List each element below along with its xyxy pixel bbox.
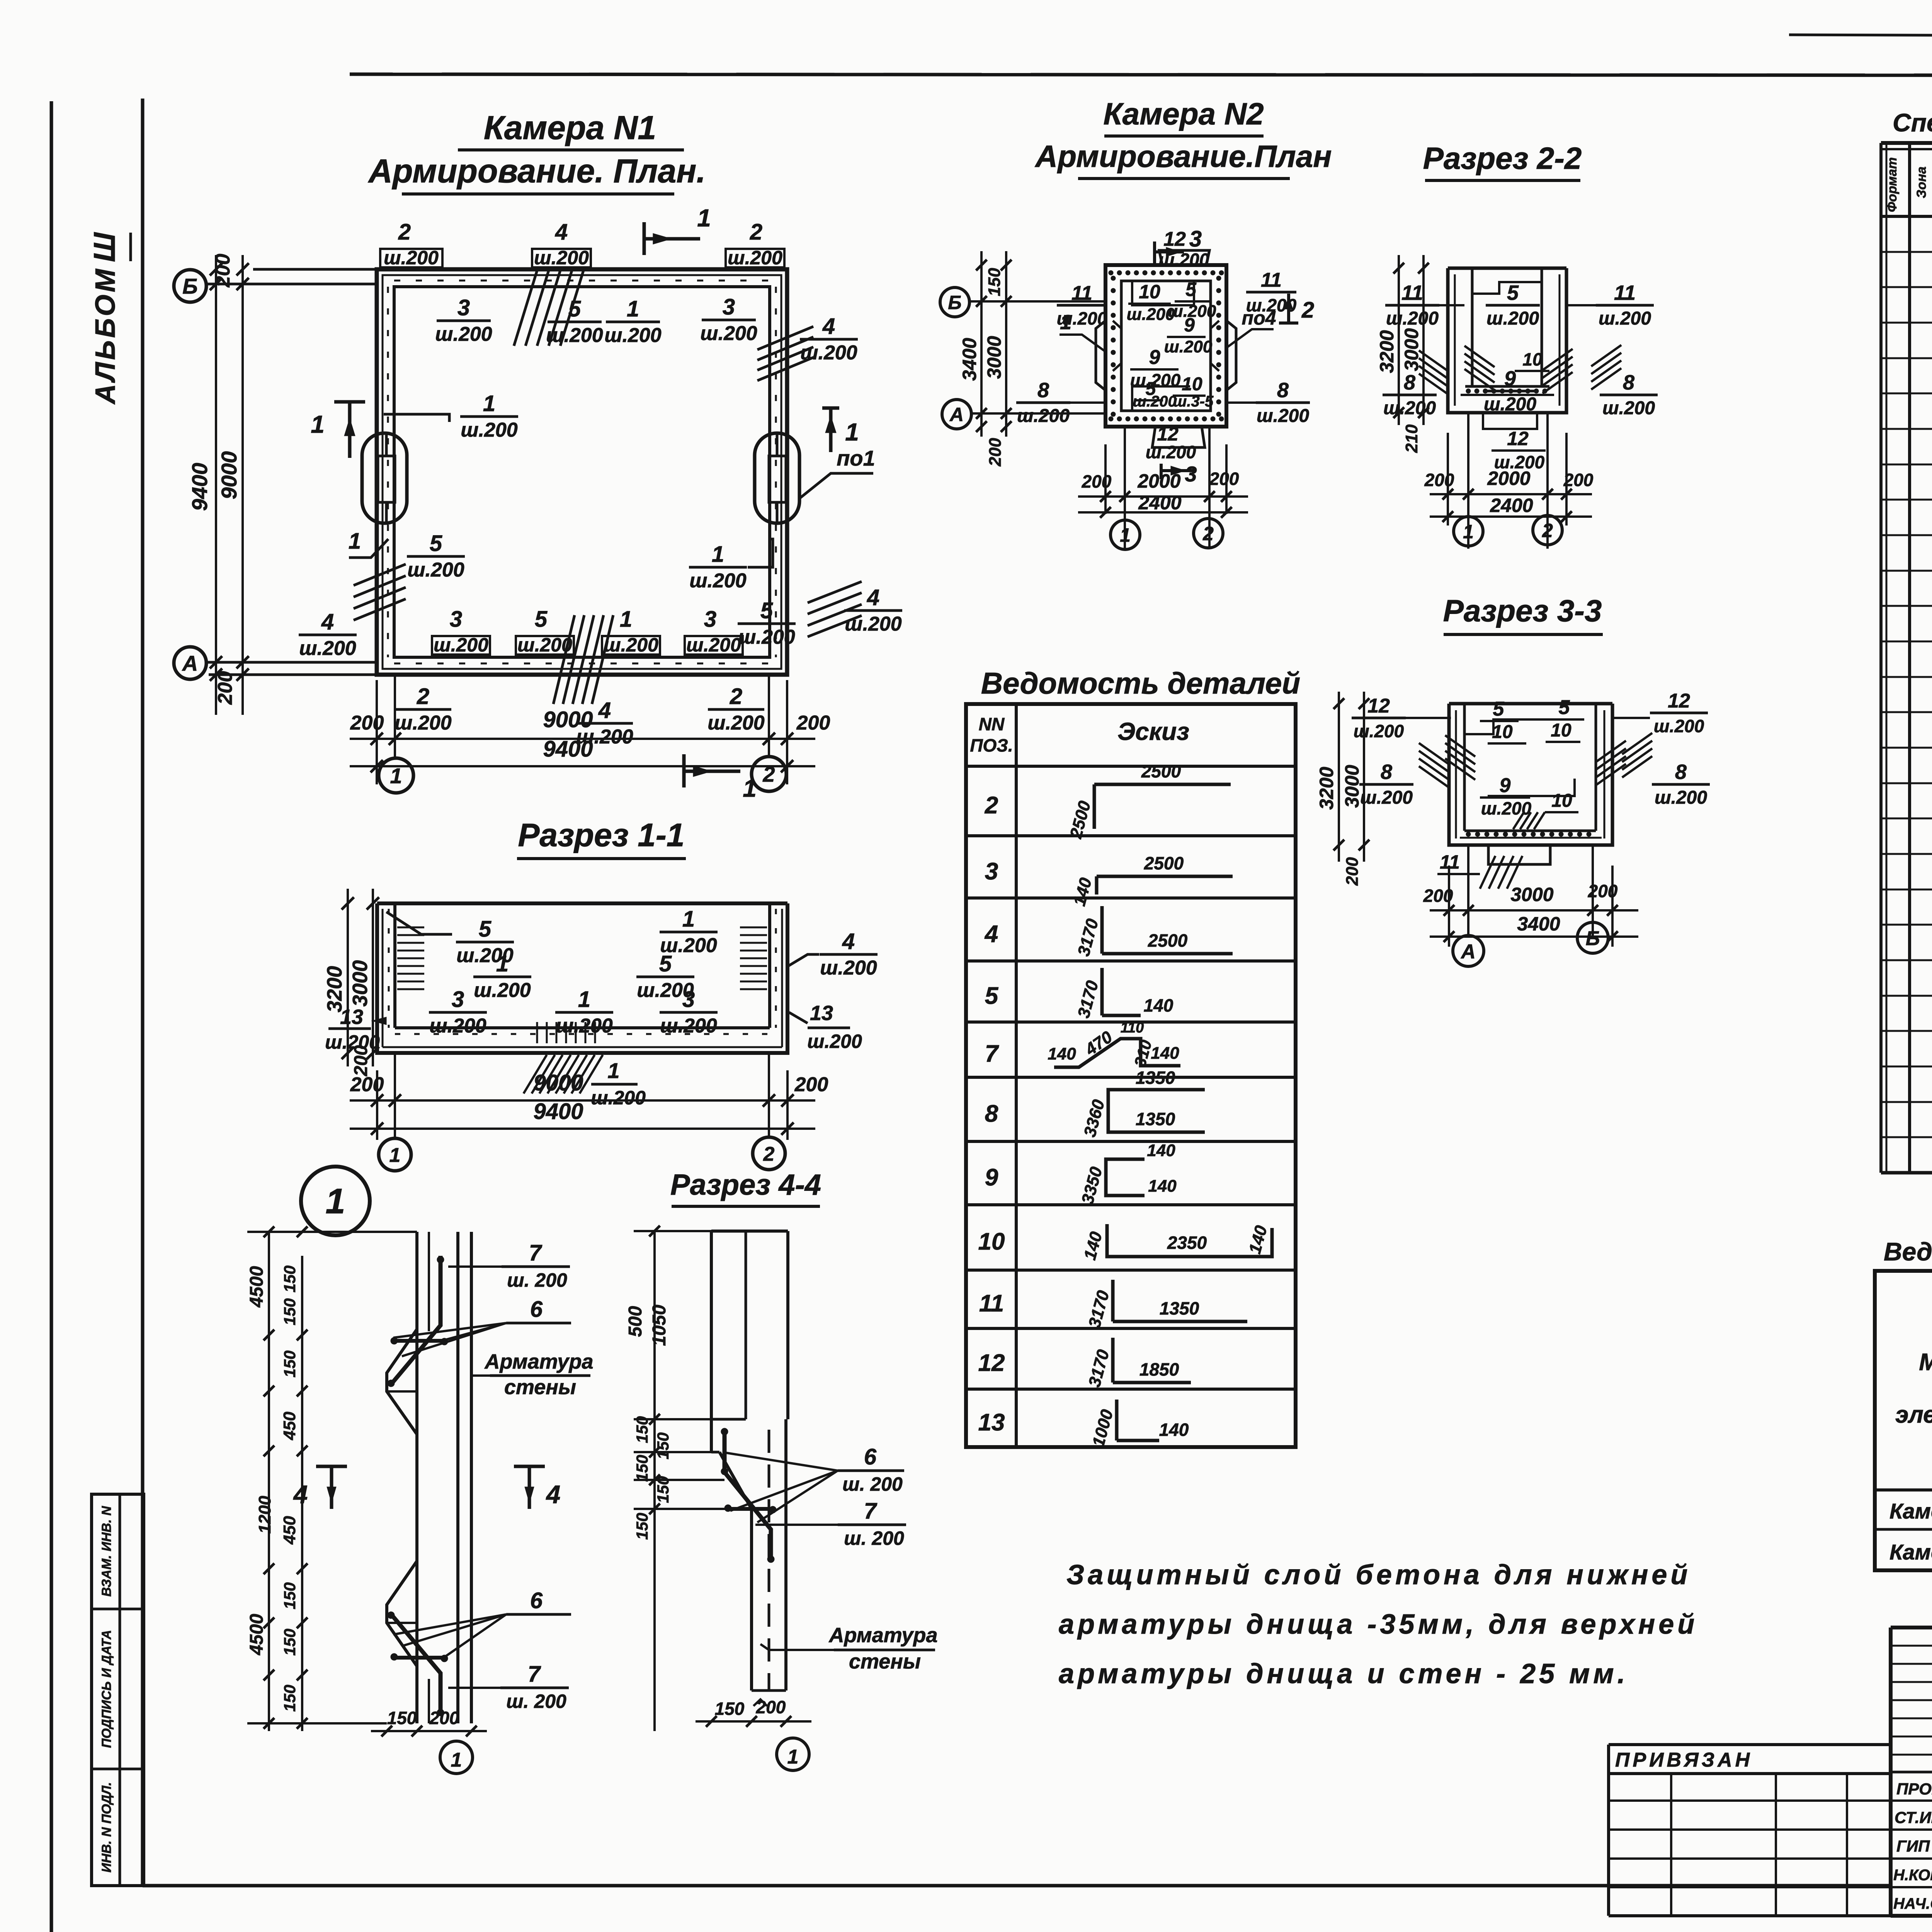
svg-text:150: 150 — [633, 1513, 651, 1540]
svg-text:ш.200: ш.200 — [1481, 798, 1532, 818]
section 2-2 label 11 right — [1566, 281, 1654, 329]
svg-text:10: 10 — [1551, 791, 1572, 811]
section 3-3 label 9 center — [1480, 774, 1532, 818]
svg-text:12: 12 — [1668, 690, 1690, 712]
svg-text:АЛЬБОМ: АЛЬБОМ — [90, 267, 121, 405]
svg-text:200: 200 — [796, 712, 830, 734]
svg-text:3: 3 — [704, 607, 716, 632]
svg-text:150: 150 — [281, 1582, 299, 1609]
title Razrez 1-1 — [517, 817, 686, 859]
svg-text:5: 5 — [1493, 698, 1505, 720]
plan label 1 right mid — [689, 539, 773, 592]
svg-text:6: 6 — [530, 1588, 543, 1613]
svg-text:200: 200 — [794, 1073, 828, 1096]
svg-text:ш.200: ш.200 — [435, 323, 492, 345]
plan labels below bottom wall — [395, 684, 765, 748]
svg-text:140: 140 — [1151, 1044, 1179, 1063]
svg-text:2: 2 — [398, 219, 411, 245]
svg-text:Разрез 1-1: Разрез 1-1 — [518, 817, 684, 853]
svg-text:2: 2 — [750, 219, 762, 245]
plan N2 label 10 inner — [1127, 281, 1175, 324]
plan right opening oval — [755, 433, 799, 523]
svg-text:1: 1 — [712, 542, 724, 567]
svg-text:2350: 2350 — [1167, 1233, 1207, 1253]
svg-text:ш.200: ш.200 — [429, 1015, 486, 1037]
plan labels under top wall — [435, 294, 757, 347]
svg-text:11: 11 — [1614, 281, 1636, 304]
plan N2 label 11 right — [1246, 269, 1297, 315]
svg-text:1: 1 — [390, 764, 402, 788]
svg-text:200: 200 — [350, 1073, 384, 1096]
svg-text:ш.200: ш.200 — [517, 634, 572, 656]
section 3-3 label 12 right — [1612, 690, 1708, 736]
svg-text:А: А — [949, 404, 964, 425]
svg-text:стены: стены — [849, 1650, 921, 1673]
svg-text:10: 10 — [1139, 281, 1160, 303]
svg-text:200: 200 — [429, 1708, 459, 1728]
plan label 5 left mid — [407, 531, 465, 581]
detail 1 dim texts — [247, 1265, 299, 1712]
plan axis circle 2 — [752, 757, 786, 791]
svg-text:12: 12 — [1157, 423, 1179, 445]
plan axis circle 1 — [379, 758, 413, 793]
svg-text:8: 8 — [1277, 379, 1289, 402]
svg-text:2: 2 — [1542, 520, 1553, 541]
svg-text:ИНВ. N ПОДЛ.: ИНВ. N ПОДЛ. — [99, 1782, 114, 1872]
svg-text:13: 13 — [978, 1409, 1005, 1436]
svg-text:ш.200: ш.200 — [1654, 716, 1704, 736]
svg-text:5: 5 — [568, 296, 581, 321]
svg-text:4: 4 — [842, 929, 855, 954]
plan hatch right upper — [757, 327, 813, 381]
svg-text:А: А — [182, 651, 198, 675]
plan axis circle B — [174, 270, 206, 302]
section 1-1 label 4 right — [788, 929, 878, 979]
section 3-3 axis circle B — [1577, 922, 1608, 953]
svg-text:4: 4 — [822, 314, 835, 339]
detail 1 bent rebars — [388, 1256, 448, 1716]
svg-text:3400: 3400 — [1517, 913, 1560, 935]
svg-text:8: 8 — [1037, 379, 1049, 402]
plan N2 label 9 inner top — [1164, 314, 1213, 356]
svg-text:1: 1 — [325, 1182, 345, 1221]
plan label 1 left upper — [384, 391, 518, 441]
svg-text:4: 4 — [293, 1480, 308, 1509]
detail 1 wall outline — [387, 1232, 471, 1723]
svg-text:ш.200: ш.200 — [604, 634, 658, 656]
svg-text:ГИП: ГИП — [1896, 1837, 1930, 1855]
album III rotated text — [87, 232, 131, 405]
svg-text:9: 9 — [985, 1164, 998, 1191]
section 3-3 hatch low — [1513, 812, 1545, 829]
svg-text:ш.200: ш.200 — [407, 559, 464, 581]
svg-text:210: 210 — [1402, 424, 1421, 453]
section 3-3 wall flags — [1419, 733, 1652, 787]
spec table header — [1885, 157, 1932, 212]
plan bottom dim texts — [350, 707, 830, 762]
svg-text:11: 11 — [1401, 281, 1423, 304]
svg-text:ш. 200: ш. 200 — [844, 1527, 904, 1549]
privyazan text — [1615, 1749, 1753, 1771]
svg-text:9000: 9000 — [217, 451, 241, 500]
svg-text:1: 1 — [620, 607, 632, 632]
svg-text:2500: 2500 — [1144, 853, 1184, 873]
section 1-1 label 1 below floor — [591, 1058, 646, 1109]
svg-text:150: 150 — [654, 1476, 672, 1503]
svg-text:4: 4 — [984, 921, 998, 947]
svg-text:200: 200 — [1563, 470, 1594, 490]
svg-text:СТ.ИНЖ: СТ.ИНЖ — [1895, 1808, 1932, 1827]
detail 1 label 7 top — [448, 1240, 570, 1291]
svg-text:10: 10 — [978, 1228, 1005, 1255]
section 3-3 bottom tab — [1488, 845, 1550, 864]
svg-text:450: 450 — [280, 1412, 299, 1440]
svg-text:3: 3 — [1189, 226, 1202, 252]
svg-text:7: 7 — [985, 1041, 999, 1067]
left stamp strip box — [92, 1494, 144, 1886]
svg-text:5: 5 — [535, 607, 548, 632]
svg-text:5: 5 — [430, 531, 442, 556]
plan N2 label 12 bottom — [1146, 423, 1196, 462]
svg-text:2: 2 — [762, 762, 775, 786]
plan section mark 1 bottom — [684, 754, 757, 802]
svg-text:ПРОВЕР: ПРОВЕР — [1896, 1780, 1932, 1798]
svg-text:9400: 9400 — [187, 463, 212, 511]
svg-text:150: 150 — [281, 1298, 299, 1325]
plan axis line A — [206, 661, 378, 664]
svg-text:150: 150 — [985, 268, 1004, 296]
svg-text:10: 10 — [1522, 349, 1543, 369]
svg-text:ш.200: ш.200 — [461, 419, 518, 441]
svg-text:9: 9 — [1500, 774, 1511, 797]
section 2-2 wall flags — [1419, 345, 1621, 395]
svg-text:2400: 2400 — [1138, 492, 1181, 514]
svg-text:1: 1 — [578, 987, 590, 1012]
plan N2 left dim texts — [959, 268, 1005, 467]
svg-text:ш.200: ш.200 — [1017, 406, 1070, 426]
svg-text:Ш: Ш — [87, 232, 121, 262]
svg-text:ш.200: ш.200 — [660, 1015, 717, 1037]
svg-text:150: 150 — [633, 1416, 651, 1443]
svg-text:5: 5 — [1559, 696, 1570, 719]
svg-text:3: 3 — [985, 858, 998, 885]
plan left dim texts — [187, 254, 241, 705]
plan section mark 1 right — [822, 408, 859, 452]
svg-text:3: 3 — [682, 987, 695, 1012]
title Razrez 4-4 — [670, 1168, 821, 1206]
plan left opening oval — [362, 433, 407, 523]
svg-text:ш.200: ш.200 — [1133, 393, 1176, 410]
page inner frame left — [141, 99, 145, 1886]
svg-text:Б: Б — [182, 274, 198, 298]
svg-text:ш.200: ш.200 — [546, 324, 603, 347]
svg-text:Ведомость деталей: Ведомость деталей — [981, 666, 1300, 700]
section 3-3 label 10 right — [1546, 720, 1580, 742]
svg-text:1: 1 — [607, 1058, 619, 1083]
svg-text:ПОДПИСЬ И ДАТА: ПОДПИСЬ И ДАТА — [99, 1630, 114, 1748]
detail 1 label armatura steny — [472, 1350, 593, 1399]
svg-text:1: 1 — [845, 418, 859, 446]
svg-text:9400: 9400 — [533, 1099, 583, 1124]
svg-text:140: 140 — [1048, 1044, 1076, 1063]
plan N2 leader 1 left — [1060, 311, 1105, 352]
section 3-3 label 8 left — [1359, 760, 1413, 808]
svg-text:1: 1 — [627, 296, 639, 321]
svg-text:200: 200 — [212, 254, 234, 288]
section 3-3 label 5 left — [1480, 698, 1519, 721]
svg-text:150: 150 — [633, 1455, 651, 1482]
svg-text:по1: по1 — [837, 446, 875, 470]
plan N2 label 5 inner — [1168, 279, 1216, 321]
svg-text:Камера N 2: Камера N 2 — [1889, 1540, 1932, 1564]
steel table header texts — [1895, 1286, 1932, 1477]
section 4-4 label armatura steny — [760, 1624, 937, 1673]
plan hatch left lower — [354, 564, 406, 620]
plan Kamera N1 walls — [377, 269, 787, 675]
note line 2 — [1059, 1609, 1698, 1640]
section 4-4 bottom circle — [777, 1738, 809, 1770]
svg-text:200: 200 — [1424, 470, 1454, 490]
svg-text:ш.200: ш.200 — [1602, 398, 1655, 418]
svg-text:2: 2 — [1301, 298, 1314, 323]
svg-text:4500: 4500 — [247, 1266, 267, 1308]
svg-text:3200: 3200 — [323, 966, 346, 1012]
svg-text:200: 200 — [1209, 469, 1239, 489]
svg-text:ш.200: ш.200 — [1655, 787, 1707, 808]
detail 1 big circle — [301, 1167, 370, 1235]
svg-text:8: 8 — [1675, 760, 1687, 784]
svg-text:9: 9 — [1504, 367, 1516, 390]
plan N2 section mark 3 bottom — [1161, 462, 1197, 486]
svg-text:2: 2 — [985, 792, 998, 819]
svg-text:3400: 3400 — [959, 338, 980, 381]
vedomost detaley header — [970, 714, 1189, 755]
svg-text:7: 7 — [528, 1662, 541, 1687]
plan N2 axis circle 1 — [1111, 520, 1140, 549]
section 1-1 tank outline — [377, 903, 787, 1053]
svg-text:1: 1 — [787, 1746, 799, 1768]
title Razrez 2-2 — [1423, 141, 1582, 180]
section 3-3 label 10 left — [1488, 722, 1526, 743]
section 1-1 hatch right wall — [740, 927, 767, 989]
svg-text:1: 1 — [349, 529, 361, 554]
svg-text:ш.200: ш.200 — [434, 634, 488, 656]
detail 1 label 6 top — [393, 1297, 571, 1356]
svg-text:450: 450 — [280, 1516, 299, 1545]
svg-text:ш.200: ш.200 — [728, 247, 782, 269]
section 2-2 outline — [1448, 268, 1566, 429]
svg-text:ш.200: ш.200 — [534, 247, 589, 269]
svg-text:150: 150 — [654, 1432, 672, 1459]
svg-text:Разрез 4-4: Разрез 4-4 — [670, 1168, 821, 1201]
section 4-4 bottom dims — [696, 1697, 811, 1727]
section 1-1 label 13 left — [325, 1005, 386, 1053]
plan N2 axis circle 2 — [1194, 519, 1223, 548]
plan N2 label po4 right — [1226, 307, 1276, 348]
svg-text:ПОЗ.: ПОЗ. — [970, 735, 1013, 755]
plan N2 axis lines — [969, 301, 1107, 413]
section 2-2 label 9 center — [1483, 367, 1537, 415]
detail 1 section mark 4 left — [293, 1466, 347, 1509]
svg-text:Н.КОНТР: Н.КОНТР — [1893, 1867, 1932, 1884]
plan N2 label 12 top — [1159, 228, 1209, 270]
page frame top line — [350, 74, 1932, 76]
svg-text:5: 5 — [659, 951, 672, 976]
svg-text:2000: 2000 — [1137, 470, 1180, 492]
svg-text:Разрез 2-2: Разрез 2-2 — [1423, 141, 1582, 175]
plan hatch bottom — [553, 615, 613, 704]
plan label 4 right upper — [800, 314, 858, 364]
svg-text:ПРИВЯЗАН: ПРИВЯЗАН — [1615, 1749, 1753, 1771]
svg-text:1: 1 — [1060, 311, 1071, 334]
plan N2 label 5 lower — [1136, 379, 1163, 400]
svg-text:150: 150 — [281, 1685, 299, 1712]
svg-text:500: 500 — [625, 1306, 646, 1337]
svg-text:Б: Б — [948, 292, 961, 313]
plan N2 axis circle A — [942, 400, 971, 429]
svg-text:ш.200: ш.200 — [1486, 308, 1539, 329]
svg-text:140: 140 — [1159, 1420, 1189, 1440]
svg-text:1850: 1850 — [1139, 1359, 1179, 1379]
section 4-4 label 7 — [755, 1498, 906, 1549]
svg-text:ш.200: ш.200 — [686, 634, 741, 656]
svg-text:1: 1 — [389, 1144, 401, 1167]
svg-text:Разрез 3-3: Разрез 3-3 — [1443, 594, 1602, 628]
section 4-4 dim texts — [625, 1304, 672, 1540]
svg-text:ш.200: ш.200 — [1599, 308, 1651, 329]
svg-text:4: 4 — [546, 1480, 561, 1509]
title block person labels — [1893, 1780, 1932, 1912]
section 3-3 left dims — [1316, 692, 1369, 886]
svg-text:1050: 1050 — [649, 1304, 670, 1346]
svg-text:5: 5 — [760, 598, 773, 623]
svg-text:2: 2 — [763, 1143, 775, 1165]
svg-text:ш.200: ш.200 — [845, 613, 902, 635]
plan section mark 1 left — [311, 402, 365, 458]
svg-text:9000: 9000 — [543, 707, 593, 732]
svg-text:8: 8 — [985, 1100, 998, 1127]
plan N2 section mark 3 top — [1155, 226, 1202, 264]
svg-text:140: 140 — [1148, 1177, 1177, 1196]
svg-text:150: 150 — [281, 1265, 299, 1293]
svg-text:ш.200: ш.200 — [299, 637, 356, 660]
svg-text:Арматура: Арматура — [484, 1350, 594, 1373]
detail 1 label 6 bottom — [393, 1588, 571, 1658]
plan N2 label 11 left — [1057, 282, 1107, 328]
section 1-1 label 13 right — [789, 1002, 862, 1052]
svg-text:ш.200: ш.200 — [807, 1031, 862, 1052]
svg-text:1: 1 — [1120, 524, 1131, 546]
plan label po1 right oval — [799, 446, 875, 498]
section 3-3 label 5 right — [1546, 696, 1584, 719]
svg-text:3000: 3000 — [349, 960, 372, 1007]
svg-text:1350: 1350 — [1136, 1068, 1175, 1088]
plan bottom wall line extension — [209, 673, 377, 676]
section 4-4 label 6 — [726, 1444, 904, 1522]
svg-text:11: 11 — [1261, 269, 1282, 291]
svg-text:НАЧ.ОТД: НАЧ.ОТД — [1893, 1895, 1932, 1912]
svg-text:4: 4 — [598, 698, 611, 723]
svg-text:200: 200 — [214, 671, 236, 705]
svg-text:Камера N1: Камера N1 — [1889, 1499, 1932, 1523]
section 3-3 outline — [1449, 704, 1612, 845]
svg-text:140: 140 — [1144, 995, 1173, 1015]
section 1-1 inner labels — [386, 906, 718, 1037]
svg-text:ш.200: ш.200 — [1257, 406, 1309, 426]
svg-text:12: 12 — [1507, 428, 1529, 449]
section 2-2 bottom dims — [1424, 413, 1594, 549]
svg-text:10: 10 — [1551, 720, 1571, 741]
title Kamera N2 — [1034, 97, 1332, 179]
svg-text:4500: 4500 — [247, 1614, 267, 1655]
section 2-2 label 8 left — [1383, 371, 1437, 418]
svg-text:6: 6 — [864, 1444, 877, 1469]
plan top wall line extension — [253, 268, 377, 271]
svg-text:9: 9 — [1184, 314, 1195, 336]
vedomost detaley title — [981, 666, 1300, 700]
svg-text:ш.200: ш.200 — [800, 342, 857, 364]
plan N2 lower texts — [1133, 393, 1214, 410]
svg-text:ВЗАМ. ИНВ. N: ВЗАМ. ИНВ. N — [99, 1505, 114, 1597]
svg-text:ш.200: ш.200 — [1360, 787, 1413, 808]
section 4-4 bent rebars — [721, 1428, 776, 1563]
svg-text:ш.200: ш.200 — [1386, 308, 1439, 329]
svg-text:Камера N1: Камера N1 — [484, 109, 656, 146]
svg-text:200: 200 — [986, 438, 1005, 467]
svg-text:1: 1 — [451, 1749, 462, 1771]
svg-text:ш.200: ш.200 — [700, 322, 757, 345]
detail 1 bottom circle — [440, 1741, 473, 1774]
svg-text:2: 2 — [730, 684, 742, 709]
page top thin rule — [1789, 35, 1932, 37]
vedomost detaley sketches — [1048, 761, 1272, 1449]
svg-text:3: 3 — [1185, 462, 1197, 486]
svg-text:элемента: элемента — [1895, 1401, 1932, 1428]
svg-text:1: 1 — [697, 204, 711, 232]
svg-text:ш.200: ш.200 — [1164, 337, 1213, 356]
svg-text:ш.200: ш.200 — [707, 712, 765, 734]
section 3-3 axis circle A — [1453, 935, 1484, 966]
plan Kamera N2 — [1096, 250, 1236, 447]
plan N2 label 9 center — [1130, 346, 1181, 390]
title block frame — [1891, 1628, 1932, 1916]
section 3-3 label 8 right — [1652, 760, 1710, 808]
svg-text:А: А — [1460, 940, 1476, 963]
svg-text:150: 150 — [281, 1629, 299, 1656]
svg-text:1: 1 — [682, 906, 695, 932]
svg-text:11: 11 — [979, 1290, 1004, 1317]
svg-text:ш.200: ш.200 — [1484, 394, 1536, 415]
svg-text:ш.200: ш.200 — [591, 1087, 646, 1109]
svg-text:ш. 200: ш. 200 — [506, 1690, 566, 1712]
svg-text:150: 150 — [715, 1699, 745, 1719]
detail 1 dim lines — [247, 1226, 417, 1731]
section 4-4 dim lines — [634, 1226, 726, 1731]
svg-text:ш.200: ш.200 — [604, 324, 662, 347]
title Razrez 3-3 — [1443, 594, 1603, 634]
svg-text:3: 3 — [450, 607, 462, 632]
svg-text:8: 8 — [1381, 760, 1392, 784]
plan N2 section mark 2 right — [1279, 294, 1314, 324]
svg-text:5: 5 — [985, 983, 999, 1009]
svg-text:ш. 200: ш. 200 — [507, 1269, 567, 1291]
svg-text:9000: 9000 — [533, 1070, 583, 1095]
svg-text:3: 3 — [457, 295, 470, 320]
plan label 5 right lower — [738, 598, 796, 648]
svg-text:3: 3 — [723, 294, 735, 320]
svg-text:4: 4 — [555, 219, 568, 245]
left stamp strip labels — [99, 1505, 114, 1872]
